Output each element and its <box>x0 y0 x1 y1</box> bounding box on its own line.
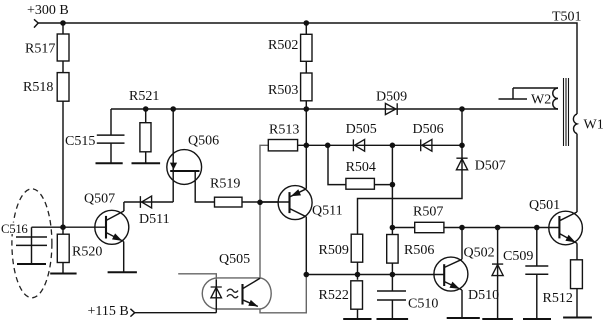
svg-text:R520: R520 <box>72 245 102 260</box>
svg-text:R512: R512 <box>543 291 573 306</box>
svg-text:R509: R509 <box>319 243 349 258</box>
svg-text:T501: T501 <box>552 10 582 25</box>
svg-text:W2: W2 <box>531 93 551 108</box>
svg-text:Q501: Q501 <box>529 198 560 213</box>
svg-text:R522: R522 <box>319 288 349 303</box>
svg-text:R517: R517 <box>25 42 55 57</box>
svg-text:R503: R503 <box>268 83 298 98</box>
svg-text:C516: C516 <box>1 222 28 236</box>
svg-text:Q502: Q502 <box>464 246 495 261</box>
svg-text:D505: D505 <box>346 122 377 137</box>
svg-text:Q511: Q511 <box>312 204 343 219</box>
svg-text:C509: C509 <box>503 249 533 264</box>
svg-text:R507: R507 <box>413 205 443 220</box>
svg-text:W1: W1 <box>584 118 603 133</box>
svg-text:Q505: Q505 <box>219 252 250 267</box>
svg-text:R513: R513 <box>269 123 299 138</box>
svg-text:C515: C515 <box>65 134 95 149</box>
svg-text:D506: D506 <box>413 122 444 137</box>
svg-text:R518: R518 <box>23 80 53 95</box>
svg-text:+300 В: +300 В <box>27 3 69 18</box>
svg-text:D507: D507 <box>475 159 506 174</box>
svg-text:D510: D510 <box>468 288 499 303</box>
svg-text:D509: D509 <box>376 90 407 105</box>
svg-text:D511: D511 <box>139 212 170 227</box>
svg-text:R504: R504 <box>346 160 376 175</box>
svg-text:Q506: Q506 <box>188 134 219 149</box>
svg-text:R502: R502 <box>268 38 298 53</box>
svg-text:C510: C510 <box>408 297 438 312</box>
svg-text:Q507: Q507 <box>84 192 115 207</box>
svg-text:+115 В: +115 В <box>88 304 129 319</box>
svg-text:R519: R519 <box>210 177 240 192</box>
svg-text:R521: R521 <box>129 89 159 104</box>
svg-text:R506: R506 <box>404 243 434 258</box>
